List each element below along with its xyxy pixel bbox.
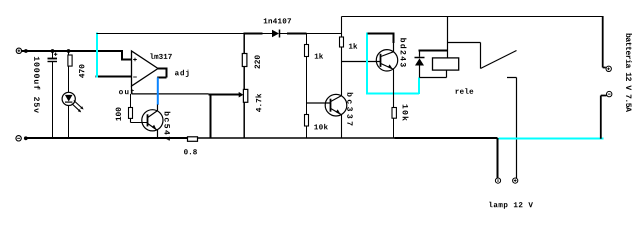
wire battery + drop: [603, 16, 606, 68]
wire out net: [132, 86, 209, 94]
label lm317: [150, 53, 171, 59]
wire cyan bottom: [499, 138, 604, 140]
resistor 470: [68, 51, 72, 93]
wire relay coil top feed: [447, 17, 449, 58]
label 470: [79, 65, 84, 78]
resistor 10k left: [305, 115, 309, 139]
LED D3: [62, 92, 84, 137]
terminal input +: [16, 48, 21, 53]
resistor 10k right: [392, 108, 396, 139]
transistor Q1 bc547: [142, 105, 163, 139]
transistor Q3 bd243: [368, 33, 398, 108]
label 1k right: [349, 43, 357, 49]
relay switch common: [448, 43, 481, 69]
wire out to rail: [210, 95, 212, 139]
label bc337: [347, 93, 353, 126]
terminal battery -: [607, 91, 612, 96]
label 1000uf 25v: [34, 57, 40, 113]
pot wiper arrow: [239, 92, 244, 98]
label rele: [456, 88, 474, 94]
bottom rail: [26, 137, 188, 139]
wire - input: [96, 76, 132, 78]
wire + input step: [121, 50, 132, 60]
label 10k left: [314, 124, 328, 130]
relay coil box: [433, 58, 459, 70]
wire relay coil bottom loop: [420, 70, 447, 77]
junction dot cap top: [51, 49, 55, 53]
label 220: [255, 55, 260, 68]
resistor 1k right: [340, 17, 344, 62]
diode D1 1n4107: [272, 30, 287, 38]
label out: [119, 89, 134, 94]
label 4.7k: [255, 94, 261, 112]
wire blue adj: [157, 78, 159, 105]
label bc547: [164, 112, 170, 141]
label 100: [116, 108, 121, 121]
resistor 0.8: [188, 137, 198, 142]
junction dot 470 top: [67, 49, 71, 53]
resistor 100: [129, 94, 148, 123]
label adj: [175, 70, 189, 77]
label 10k right: [403, 105, 409, 121]
relay NO contact hook: [507, 78, 517, 179]
capacitor C1 1000uf 25v: [48, 51, 58, 138]
transistor Q2 bc337: [325, 62, 347, 139]
wire lamp - drop: [497, 138, 499, 178]
junction dot input +: [24, 49, 28, 53]
wire bd243 base: [342, 61, 381, 63]
resistor 220: [242, 34, 247, 90]
wire diode top to coil feed: [419, 50, 448, 52]
label batteria 12 V 7.5A: [626, 34, 632, 112]
label bd243: [401, 38, 407, 67]
label 0.8: [184, 149, 197, 154]
terminal lamp +: [513, 178, 518, 183]
label 1n4107: [264, 18, 291, 23]
terminal lamp -: [495, 178, 500, 183]
terminal battery +: [606, 66, 611, 71]
potentiometer 4.7k: [243, 89, 247, 138]
wire top mid rail: [97, 33, 244, 35]
wire top left: [22, 50, 122, 52]
terminal input -: [16, 136, 21, 141]
wire cyan collector net: [366, 33, 419, 95]
wire adj pin step: [157, 68, 166, 78]
wire cyan left: [96, 33, 98, 78]
label lamp 12 V: [489, 202, 533, 209]
op-amp U1 lm317: [132, 51, 159, 86]
junction dot input -: [24, 136, 28, 140]
wire battery - drop: [601, 96, 607, 139]
diode D2 relay flyback: [415, 51, 425, 78]
resistor 1k left: [305, 34, 309, 115]
wire top right rail: [342, 16, 604, 18]
wire bc337 base: [307, 102, 331, 104]
relay switch arm: [481, 51, 517, 69]
label 1k left: [315, 53, 323, 59]
